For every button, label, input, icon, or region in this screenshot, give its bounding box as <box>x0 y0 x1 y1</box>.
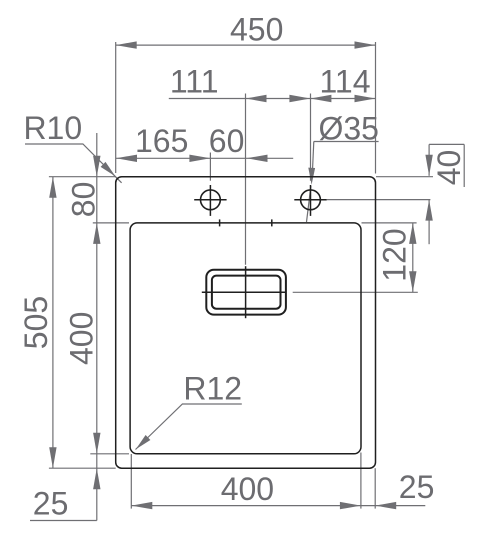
svg-text:400: 400 <box>221 471 274 507</box>
svg-text:60: 60 <box>209 123 245 159</box>
svg-text:505: 505 <box>18 296 54 349</box>
svg-text:400: 400 <box>64 312 100 365</box>
svg-text:165: 165 <box>135 123 188 159</box>
svg-text:450: 450 <box>230 12 283 48</box>
svg-text:25: 25 <box>399 469 435 505</box>
svg-text:R10: R10 <box>23 110 82 146</box>
svg-text:80: 80 <box>66 182 102 218</box>
svg-text:Ø35: Ø35 <box>318 110 378 146</box>
svg-text:R12: R12 <box>183 371 242 407</box>
svg-text:40: 40 <box>431 150 467 186</box>
svg-text:111: 111 <box>170 63 219 99</box>
svg-text:114: 114 <box>319 63 370 99</box>
svg-text:120: 120 <box>377 228 413 281</box>
svg-text:25: 25 <box>33 486 69 522</box>
